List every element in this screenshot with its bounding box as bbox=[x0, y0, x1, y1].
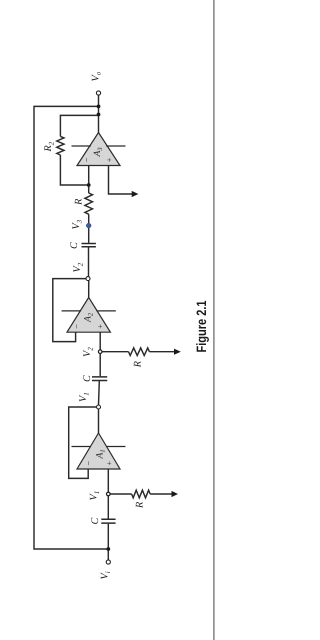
wire R to A3 - input bbox=[88, 166, 90, 194]
svg-text:−: − bbox=[82, 157, 92, 163]
svg-text:C: C bbox=[90, 518, 101, 525]
svg-text:R2: R2 bbox=[43, 141, 55, 152]
wire A1 feedback loop bbox=[69, 407, 97, 478]
svg-text:V2: V2 bbox=[72, 262, 84, 272]
capacitor C bbox=[101, 519, 115, 523]
svg-text:Vi: Vi bbox=[100, 571, 112, 579]
page rule line bbox=[213, 0, 214, 640]
wire A2 output to V2' bbox=[88, 281, 90, 298]
svg-text:R: R bbox=[132, 360, 143, 368]
node V2 bbox=[98, 350, 102, 354]
svg-text:R: R bbox=[74, 198, 85, 206]
ground arrow stage1 bbox=[172, 491, 179, 497]
junction dot A3 - input bbox=[87, 183, 91, 187]
svg-text:Figure 2.1: Figure 2.1 bbox=[194, 300, 209, 352]
node V1 bbox=[107, 492, 111, 496]
op-amp A2 triangle bbox=[67, 297, 110, 332]
svg-text:C: C bbox=[69, 242, 80, 249]
svg-text:V1: V1 bbox=[89, 491, 101, 501]
wire C to node V2 to A2 + input bbox=[99, 332, 101, 376]
wire feedback loop Vo to Vi junction bbox=[34, 106, 108, 549]
resistor R stage3 bbox=[85, 193, 93, 214]
junction dot Vi bbox=[106, 547, 110, 551]
wire Vi to C bbox=[107, 524, 109, 560]
resistor R2 bbox=[57, 136, 64, 155]
wire A2 feedback loop bbox=[53, 279, 86, 342]
wire A3 + input to ground bbox=[109, 166, 133, 195]
terminal Vo bbox=[96, 91, 100, 95]
ground arrow stage2 bbox=[174, 349, 181, 355]
wire V1' to C stage2 bbox=[98, 381, 101, 405]
terminal Vi bbox=[106, 560, 110, 564]
wire V2' to C stage3 bbox=[88, 247, 90, 276]
wire C to node V3 to resistor R bbox=[88, 214, 90, 243]
node V1 output bbox=[97, 405, 101, 409]
op-amp A2 power pins bbox=[62, 310, 116, 312]
wire A1 output to V1' bbox=[98, 409, 100, 433]
svg-text:+: + bbox=[104, 157, 114, 163]
svg-text:−: − bbox=[71, 324, 81, 330]
svg-text:+: + bbox=[104, 460, 114, 466]
ground arrow A3 bbox=[132, 191, 139, 197]
wire A3 output to Vo bbox=[98, 95, 100, 133]
capacitor C stage3 bbox=[82, 244, 96, 247]
svg-text:Vo: Vo bbox=[90, 71, 102, 81]
svg-text:R: R bbox=[135, 501, 146, 509]
svg-text:C: C bbox=[82, 375, 93, 382]
wire R2 feedback loop bbox=[60, 115, 98, 185]
op-amp A1 triangle bbox=[77, 433, 120, 469]
svg-text:−: − bbox=[83, 460, 93, 466]
op-amp A3 power pins bbox=[72, 145, 126, 147]
junction dot R2 tap bbox=[97, 113, 101, 117]
resistor R stage2 bbox=[102, 348, 174, 356]
svg-text:V2: V2 bbox=[82, 347, 94, 357]
node V3 blue dot bbox=[86, 223, 91, 228]
svg-text:+: + bbox=[95, 324, 105, 330]
svg-text:V1: V1 bbox=[78, 392, 90, 402]
op-amp A1 power pins bbox=[72, 446, 126, 448]
node V2 output bbox=[86, 277, 90, 281]
resistor R stage1 bbox=[110, 490, 172, 498]
capacitor C stage2 bbox=[92, 377, 107, 381]
op-amp A3 triangle bbox=[77, 133, 120, 166]
junction dot feedback tap bbox=[97, 105, 101, 109]
wire C to node V1 to A1 + input bbox=[107, 469, 109, 519]
svg-text:V3: V3 bbox=[71, 219, 83, 229]
